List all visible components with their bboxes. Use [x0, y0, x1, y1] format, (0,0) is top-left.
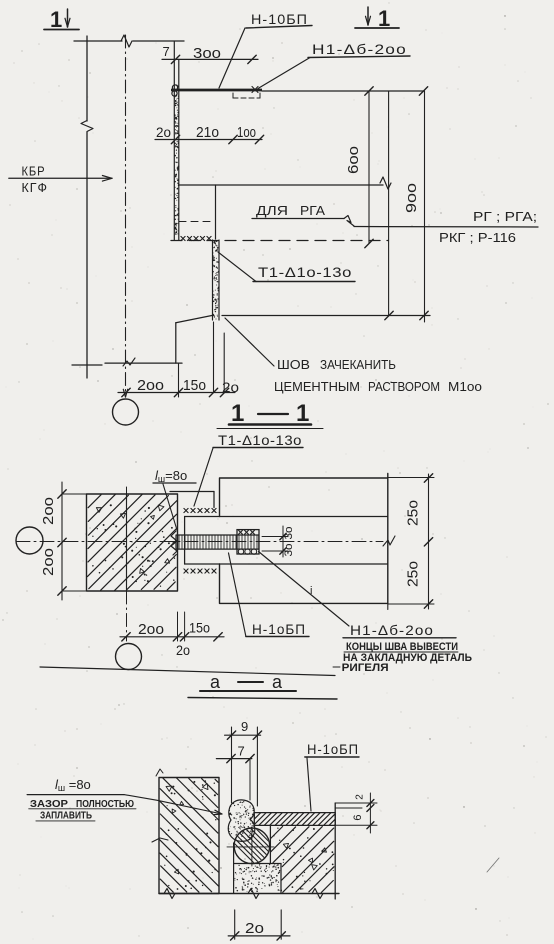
svg-text:1: 1 [231, 400, 244, 427]
svg-text:РГ ; РГА;: РГ ; РГА; [473, 210, 537, 224]
svg-text:Н-1оБП: Н-1оБП [307, 741, 359, 757]
svg-text:Т1-Δ1о-13о: Т1-Δ1о-13о [218, 432, 302, 448]
svg-text:2оо: 2оо [137, 377, 164, 394]
svg-text:15о: 15о [183, 377, 206, 394]
svg-text:3о: 3о [283, 544, 295, 557]
svg-text:lш=8о: lш=8о [155, 468, 187, 484]
svg-text:25о: 25о [405, 561, 422, 587]
svg-text:РГА: РГА [300, 204, 326, 218]
svg-text:М1оо: М1оо [448, 380, 482, 394]
svg-text:РАСТВОРОМ: РАСТВОРОМ [368, 380, 440, 394]
svg-text:Н1-Δб-2оо: Н1-Δб-2оо [312, 41, 407, 57]
svg-text:2о: 2о [156, 125, 171, 140]
svg-text:2оо: 2оо [138, 621, 164, 638]
svg-text:2оо: 2оо [40, 497, 57, 525]
svg-text:КГФ: КГФ [22, 181, 49, 195]
svg-text:Н-10БП: Н-10БП [251, 11, 308, 27]
svg-text:Н-1оБП: Н-1оБП [252, 621, 306, 637]
svg-text:6оо: 6оо [345, 146, 362, 174]
svg-text:ЗАПЛАВИТЬ: ЗАПЛАВИТЬ [40, 810, 92, 822]
svg-text:1: 1 [296, 400, 309, 427]
svg-text:7: 7 [238, 744, 245, 759]
svg-text:9оо: 9оо [403, 183, 420, 213]
svg-text:25о: 25о [405, 500, 422, 526]
svg-text:ПОЛНОСТЬЮ: ПОЛНОСТЬЮ [76, 798, 134, 810]
svg-text:7: 7 [163, 44, 170, 59]
svg-text:2: 2 [355, 794, 366, 800]
svg-text:2оо: 2оо [40, 548, 57, 576]
svg-text:а: а [210, 672, 221, 692]
svg-text:ЦЕМЕНТНЫМ: ЦЕМЕНТНЫМ [274, 380, 360, 394]
svg-text:3оо: 3оо [193, 45, 221, 62]
svg-text:КБР: КБР [22, 165, 46, 179]
svg-text:ШОВ: ШОВ [277, 358, 310, 372]
svg-text:РИГЕЛЯ: РИГЕЛЯ [342, 662, 389, 674]
svg-text:9: 9 [241, 719, 248, 734]
svg-text:lш =8о: lш =8о [55, 777, 91, 793]
svg-text:а: а [272, 672, 283, 692]
svg-text:ДЛЯ: ДЛЯ [256, 204, 288, 218]
svg-text:21о: 21о [196, 124, 219, 141]
svg-text:1: 1 [50, 7, 62, 32]
svg-text:15о: 15о [189, 620, 210, 636]
svg-text:Т1-Δ1о-13о: Т1-Δ1о-13о [258, 264, 352, 280]
svg-text:6: 6 [352, 814, 364, 820]
svg-text:2о: 2о [245, 920, 264, 937]
svg-text:РКГ ; Р-116: РКГ ; Р-116 [439, 231, 516, 245]
svg-text:ЗАЗОР: ЗАЗОР [30, 798, 68, 810]
svg-text:2о: 2о [176, 642, 190, 658]
svg-text:ЗАЧЕКАНИТЬ: ЗАЧЕКАНИТЬ [320, 358, 396, 372]
svg-text:3о: 3о [283, 527, 295, 540]
svg-text:1оо: 1оо [237, 124, 256, 141]
svg-text:Н1-Δб-2оо: Н1-Δб-2оо [350, 622, 434, 638]
